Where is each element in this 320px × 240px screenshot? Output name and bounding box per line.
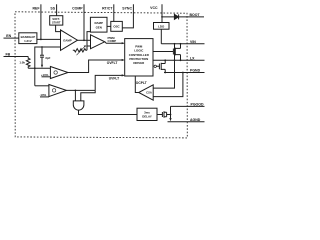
svg-text:3pF: 3pF: [45, 56, 50, 60]
wire CSA sense top: [153, 60, 174, 88]
wire soft-start to EAMP top: [56, 25, 62, 32]
AND gate G1: [73, 101, 84, 110]
arrow slope adjust: [77, 46, 86, 55]
svg-text:LDO: LDO: [158, 25, 165, 29]
pin COMP: [83, 4, 85, 40]
wire osc to ramp gen: [107, 25, 111, 27]
arrowhead slope adjust: [84, 45, 86, 47]
svg-text:COMP: COMP: [72, 6, 83, 10]
op-amp EAMP: [61, 30, 78, 51]
pin LX rail: [153, 59, 205, 61]
svg-text:PGOOD: PGOOD: [191, 103, 205, 107]
comparator OVP: [50, 67, 68, 79]
node PGOOD junction: [170, 114, 172, 116]
wire to AND gate input 2: [81, 90, 95, 101]
UVP hysteresis glyph: [52, 89, 55, 92]
LDO box U6: [154, 23, 170, 30]
svg-text:EAMP: EAMP: [63, 39, 71, 43]
wire FB node N1: [28, 67, 50, 69]
pin PGOOD wire: [171, 105, 205, 107]
arrowhead UVFLT into block: [122, 74, 125, 76]
svg-text:BOOT: BOOT: [190, 13, 201, 17]
OVP hysteresis glyph: [54, 71, 57, 74]
svg-text:FB: FB: [6, 52, 11, 56]
node VIN junctions: [174, 43, 182, 45]
svg-text:SYNC: SYNC: [122, 6, 132, 10]
arrowhead PWM into block: [122, 42, 125, 44]
transistor Q1 high-side FET: [153, 44, 181, 61]
svg-text:VIN: VIN: [190, 40, 196, 44]
wire AND output to delay: [79, 111, 138, 115]
svg-text:PGND: PGND: [190, 69, 201, 73]
arrowhead to AGND: [169, 118, 171, 121]
svg-text:EN: EN: [6, 34, 11, 38]
soft-start box U2: [50, 16, 63, 25]
wire OVP output OVFLT: [68, 60, 124, 73]
svg-text:OCPLT: OCPLT: [136, 81, 147, 85]
node N1 junction: [34, 67, 36, 69]
svg-text:SOFT-: SOFT-: [52, 17, 60, 21]
pin SS: [56, 4, 58, 15]
pin BOOT wire with diode D1: [162, 16, 204, 18]
wire CSA sense bottom: [153, 73, 183, 97]
svg-text:START: START: [52, 21, 61, 25]
node REF junction: [40, 39, 42, 41]
pin VCC: [161, 4, 163, 22]
svg-text:OSC: OSC: [113, 25, 120, 29]
ramp generator box U3: [90, 17, 107, 32]
transistor Q2 low-side FET: [156, 60, 165, 72]
inverter bubble low-side driver: [154, 65, 156, 67]
svg-text:CSA: CSA: [146, 91, 152, 95]
svg-text:SS: SS: [50, 6, 55, 10]
wire PGOOD up: [170, 106, 172, 114]
svg-text:RT/CT: RT/CT: [102, 6, 113, 10]
PWM comparator: [91, 35, 105, 49]
pin EN: [4, 37, 19, 39]
node UVP output junction: [75, 90, 77, 92]
oscillator box U4: [111, 21, 123, 31]
svg-text:1.21V: 1.21V: [24, 39, 32, 43]
wire PWM comp output: [105, 42, 124, 43]
wire UVP input from N1: [35, 85, 49, 87]
wire ramp gen to PWM comp: [87, 32, 90, 51]
node EAMP- cap junction: [41, 46, 43, 48]
svg-text:DRIVER: DRIVER: [133, 61, 145, 65]
node ramp junction: [86, 45, 88, 47]
pin PGND rail: [164, 72, 205, 74]
svg-text:UVFLT: UVFLT: [109, 77, 119, 81]
wire OVP ref stub: [42, 76, 51, 78]
wire UVP ref stub: [40, 96, 49, 98]
wire EAMP output to PWM comparator: [78, 39, 91, 41]
wire bandgap output to EAMP+: [37, 38, 61, 40]
pin AGND rail: [168, 121, 205, 123]
node PGND junctions: [164, 72, 184, 74]
wire UVP output UVFLT: [67, 75, 124, 90]
pin SYNC: [122, 4, 133, 28]
transistor Q3 PGOOD: [157, 111, 171, 117]
wire CSA output OCPLT: [135, 76, 138, 93]
svg-text:AGND: AGND: [190, 118, 201, 122]
wire EAMP- input: [35, 47, 61, 86]
svg-text:1.0k: 1.0k: [19, 61, 25, 65]
op-amp CSA current sense: [139, 85, 154, 100]
svg-text:-10%: -10%: [39, 93, 46, 97]
wire PGOOD down to AGND: [170, 115, 172, 119]
capacitor C1 3pF: [40, 47, 44, 65]
arrowhead cap to N1: [41, 65, 43, 68]
delay box U7: [137, 108, 157, 120]
pin FB: [4, 56, 29, 58]
svg-text:LX: LX: [190, 56, 195, 60]
wire to AND gate input 1: [74, 90, 76, 101]
svg-text:DELAY: DELAY: [142, 115, 152, 119]
node LX junctions: [164, 59, 181, 61]
PWM logic controller block U5: [125, 39, 153, 76]
svg-text:COMP: COMP: [108, 39, 117, 43]
IC boundary dashed border: [15, 12, 187, 138]
resistor R2 slope: [73, 49, 87, 52]
node COMP junction: [83, 39, 85, 41]
svg-text:REF: REF: [33, 6, 41, 10]
wire PWM comp lower input: [87, 45, 91, 47]
svg-text:+10%: +10%: [41, 73, 49, 77]
arrowhead OVFLT into block: [122, 59, 125, 61]
svg-text:GEN: GEN: [96, 25, 102, 29]
pin REF: [40, 4, 42, 39]
pin RT/CT: [113, 4, 115, 21]
bandgap reference box U1: [19, 33, 37, 44]
svg-text:VCC: VCC: [150, 6, 158, 10]
diode D1: [174, 14, 178, 19]
wire LDO output to VIN rail: [160, 29, 162, 44]
comparator UVP: [49, 85, 67, 97]
resistor R1 1.0k: [26, 57, 30, 69]
pin VIN rail: [161, 43, 204, 45]
node VCC diode junction: [161, 16, 163, 18]
svg-text:OVFLT: OVFLT: [107, 61, 118, 65]
